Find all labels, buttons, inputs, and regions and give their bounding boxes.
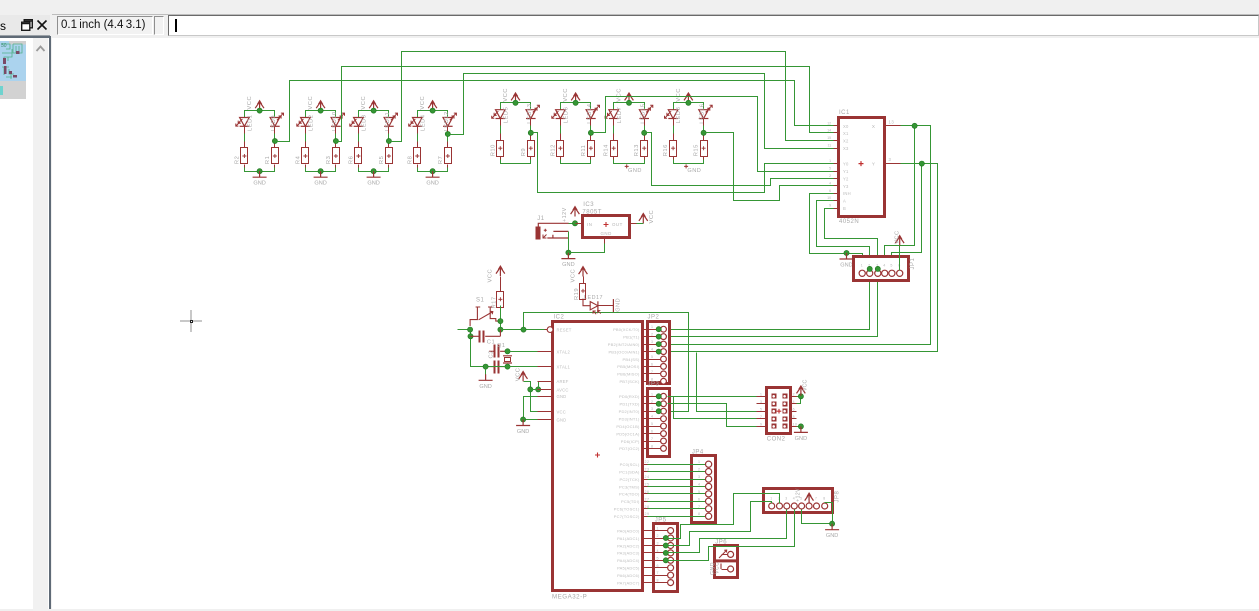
- svg-text:XTAL2: XTAL2: [557, 349, 571, 354]
- power VCC group 5: [515, 94, 517, 103]
- svg-text:GND: GND: [253, 181, 265, 187]
- svg-text:6: 6: [651, 362, 654, 366]
- power VCC at R17: [499, 268, 501, 277]
- pin IC2 PC1(SDA): [643, 471, 648, 473]
- junction JP5 pin: [663, 543, 668, 548]
- junction JP2 pin: [656, 349, 661, 354]
- svg-text:VCC: VCC: [803, 380, 809, 391]
- LED LED2: [301, 118, 311, 127]
- svg-text:R13: R13: [634, 144, 640, 156]
- resistor R17: [497, 292, 504, 308]
- junction AVCC a: [528, 387, 533, 392]
- svg-text:28: 28: [645, 505, 650, 509]
- pin CON2 6: [791, 411, 797, 413]
- power +12V: [574, 208, 576, 217]
- pin JP4 3: [648, 479, 706, 481]
- wire LED14 to R11: [590, 119, 592, 141]
- wire bottom group 8: [673, 157, 675, 161]
- resistor R15: [701, 141, 708, 157]
- pin CON2 10: [791, 426, 797, 428]
- junction gnd group 2: [318, 169, 323, 174]
- pin IC2 PD3(INT1): [643, 418, 648, 420]
- svg-text:LED15: LED15: [640, 103, 646, 123]
- svg-text:4: 4: [651, 415, 654, 419]
- pin IC2 PA4(ADC4): [643, 560, 648, 562]
- svg-text:1: 1: [770, 497, 772, 501]
- pin JP1 5: [889, 270, 895, 276]
- power VCC group 2: [320, 102, 322, 111]
- wire net MUXX (IC1 X to JP1/JP2): [668, 126, 931, 345]
- svg-text:MEGA32-P: MEGA32-P: [552, 593, 587, 600]
- wire bottom group 6: [560, 157, 562, 161]
- resistor R19: [580, 284, 586, 300]
- ground GND at JP1: [840, 253, 854, 259]
- svg-text:VCC: VCC: [570, 269, 576, 283]
- svg-text:6: 6: [657, 564, 660, 568]
- wire LED8 to R16: [673, 119, 675, 141]
- ground GND at JP8: [825, 524, 839, 530]
- wire LED7 to R14: [613, 119, 615, 141]
- small separator box: [154, 16, 164, 35]
- wire J1 gnd: [568, 232, 570, 253]
- pin IC1 X0: [834, 125, 839, 127]
- wire net INH (IC1 to GND/JP1 pin1): [810, 194, 863, 271]
- wire VCC to JP1 pin6: [899, 246, 901, 271]
- wire bottom group 2: [305, 165, 307, 169]
- svg-text:LED5: LED5: [503, 107, 509, 124]
- pin IC2 PC4(TDO): [643, 493, 648, 495]
- pin JP6 1: [728, 551, 734, 557]
- wire GND rows net: [524, 397, 538, 420]
- pin IC2 PB0(XCK/T0): [643, 329, 648, 331]
- pin IC1 Y2: [834, 178, 839, 180]
- pin IC2 GND: [538, 419, 554, 421]
- svg-text:JP2: JP2: [648, 315, 660, 321]
- wire reset net to IC2: [501, 329, 545, 331]
- svg-text:1: 1: [657, 527, 660, 531]
- svg-text:Y2: Y2: [843, 176, 849, 181]
- pin JP4 1: [648, 464, 706, 466]
- svg-text:Y1: Y1: [843, 169, 849, 174]
- svg-text:PA4(ADC4): PA4(ADC4): [617, 558, 640, 563]
- pin IC2 PB5(MOSI): [643, 366, 648, 368]
- pin JP8 1: [769, 503, 775, 509]
- svg-text:GND: GND: [557, 394, 567, 399]
- power VCC group 1: [259, 102, 261, 111]
- svg-text:7: 7: [698, 505, 701, 509]
- wire LED2 to R4: [305, 127, 307, 148]
- pin IC1 INH: [834, 193, 839, 195]
- wire vcc rail group 2: [306, 111, 336, 118]
- svg-text:AREF: AREF: [557, 379, 569, 384]
- pin IC2 PD5(OC1A): [643, 433, 648, 435]
- svg-text:VCC: VCC: [714, 562, 720, 574]
- pin IC2 PC6(TOSC1): [643, 508, 648, 510]
- pin IC2 AVCC: [538, 389, 554, 391]
- pin IC2 PB3(OC0/AIN1): [643, 351, 648, 353]
- svg-text:PA1(ADC1): PA1(ADC1): [617, 536, 640, 541]
- pin JP2 8: [648, 381, 661, 383]
- wire JP3 pin1 to CON2: [668, 396, 757, 398]
- resistor R7: [445, 148, 452, 164]
- wire vcc rail group 4: [418, 111, 448, 118]
- ground GND at LED17 (rotated): [612, 299, 614, 312]
- pin IC2 PA0(ADC0): [643, 530, 648, 532]
- svg-text:7: 7: [651, 370, 654, 374]
- svg-text:8: 8: [793, 415, 795, 419]
- pin JP3 1: [648, 396, 661, 398]
- svg-text:GND: GND: [826, 533, 838, 539]
- pin IC2 PA1(ADC1): [643, 538, 648, 540]
- wire IC3 out to VCC: [637, 223, 644, 225]
- wire LED12 to R7: [447, 127, 449, 148]
- pin JP8 6: [806, 503, 812, 509]
- power +12V at JP8: [808, 495, 810, 504]
- junction JP1 pin3: [875, 266, 880, 271]
- svg-text:3: 3: [698, 475, 701, 479]
- svg-text:12: 12: [827, 121, 831, 125]
- pin JP1 2: [867, 270, 873, 276]
- pin CON2 7: [757, 418, 767, 420]
- svg-text:2: 2: [829, 174, 831, 178]
- svg-text:VCC: VCC: [557, 410, 566, 415]
- svg-text:PA6(ADC6): PA6(ADC6): [617, 573, 640, 578]
- wire LED3 to R6: [358, 127, 360, 148]
- junction X out: [912, 123, 917, 128]
- svg-text:PC1(SDA): PC1(SDA): [619, 469, 640, 474]
- wire JP5 pin2 to JP8 pin2: [666, 494, 780, 539]
- wire CON2 GND: [797, 426, 801, 428]
- resistor R3: [333, 148, 340, 164]
- svg-text:R4: R4: [295, 155, 301, 164]
- svg-text:1: 1: [829, 159, 831, 163]
- svg-text:X: X: [872, 124, 876, 129]
- svg-text:GND: GND: [795, 436, 807, 442]
- pin IC2 VCC: [538, 411, 554, 413]
- svg-text:15: 15: [827, 136, 831, 140]
- pin JP1 3: [875, 270, 881, 276]
- wire vcc rail group 3: [359, 111, 389, 118]
- junction INH gnd: [844, 250, 849, 255]
- wire AVCC pin: [531, 389, 538, 391]
- junction vcc group 7: [626, 100, 631, 105]
- svg-text:GND: GND: [628, 168, 642, 174]
- wire net Y3 (G8 to IC1): [704, 133, 834, 201]
- svg-text:VCC: VCC: [420, 96, 426, 110]
- svg-text:VCC: VCC: [895, 230, 901, 244]
- svg-text:1: 1: [698, 460, 701, 464]
- wire bottom group 3: [358, 165, 360, 169]
- wire vcc rail group 7: [614, 103, 645, 110]
- diode LED17: [583, 299, 590, 306]
- junction G5 out: [528, 130, 533, 135]
- svg-text:X1: X1: [843, 131, 849, 136]
- connector JP1 box: [854, 257, 909, 281]
- svg-text:8: 8: [698, 512, 701, 516]
- voltage regulator IC3 7805T box: [583, 216, 630, 238]
- svg-text:VCC: VCC: [247, 96, 253, 110]
- svg-text:PB5(MOSI): PB5(MOSI): [617, 364, 640, 369]
- svg-text:GND: GND: [615, 298, 621, 312]
- svg-text:+12V: +12V: [796, 488, 802, 502]
- svg-text:5: 5: [698, 490, 701, 494]
- pin JP4 6: [648, 501, 706, 503]
- svg-text:R16: R16: [663, 144, 669, 156]
- pin JP8 3: [784, 503, 790, 509]
- svg-text:Y0: Y0: [843, 162, 849, 167]
- svg-text:5: 5: [651, 422, 654, 426]
- pin JP7 1: [728, 566, 734, 572]
- svg-text:2: 2: [651, 400, 654, 404]
- junction G4 out: [445, 131, 450, 136]
- svg-text:LED2: LED2: [309, 114, 315, 131]
- svg-text:R5: R5: [379, 156, 385, 164]
- svg-text:14: 14: [827, 129, 831, 133]
- wire net Y1 (G6 to IC1): [591, 97, 834, 172]
- LED LED12: [443, 118, 453, 127]
- svg-text:PC0(SCL): PC0(SCL): [620, 462, 640, 467]
- junction vcc group 8: [686, 100, 691, 105]
- power VCC at IC3 output: [642, 215, 644, 224]
- wire LED10 to R3: [335, 127, 337, 148]
- svg-text:VCC: VCC: [516, 368, 522, 382]
- svg-text:7: 7: [651, 437, 654, 441]
- wire JP5 pin3 to JP8 pin1: [666, 502, 772, 546]
- pin CON2 2: [791, 396, 797, 398]
- svg-text:R9: R9: [521, 148, 527, 156]
- ground GND at crystal: [479, 374, 493, 380]
- resistor R12: [557, 141, 564, 157]
- svg-text:6: 6: [698, 497, 701, 501]
- svg-text:PD2(INT0): PD2(INT0): [619, 409, 640, 414]
- LED LED9: [270, 118, 280, 127]
- svg-text:PB0(XCK/T0): PB0(XCK/T0): [613, 327, 640, 332]
- wire JP5 pin4 to JP8 pin3: [666, 510, 787, 553]
- junction reset top: [498, 319, 503, 324]
- pin CON2 3: [757, 403, 767, 405]
- svg-text:4: 4: [657, 549, 660, 553]
- svg-text:IN: IN: [587, 222, 592, 227]
- command input field: [168, 15, 1259, 36]
- svg-text:VCC: VCC: [617, 88, 623, 102]
- crystal Q1: [503, 356, 512, 363]
- svg-text:VCC: VCC: [676, 88, 682, 102]
- pin IC2 PB7(SCK): [643, 381, 648, 383]
- pin JP3 2: [648, 403, 661, 405]
- wire net X1 (G2 to IC1): [336, 67, 834, 142]
- capacitor C1: [479, 331, 481, 343]
- svg-text:29: 29: [645, 512, 650, 516]
- wire J1 to +12V node: [569, 223, 576, 225]
- svg-text:3: 3: [785, 497, 787, 501]
- junction reset row: [498, 327, 503, 332]
- resistor R2: [241, 148, 248, 164]
- svg-text:R6: R6: [348, 156, 354, 164]
- svg-text:5: 5: [890, 264, 893, 268]
- svg-text:GND: GND: [314, 181, 326, 187]
- svg-text:5: 5: [657, 556, 660, 560]
- svg-text:3: 3: [657, 542, 660, 546]
- op-amp IC1 4052N box: [839, 118, 885, 217]
- connector JP2 box: [648, 322, 670, 384]
- ground GND at IC2: [516, 420, 530, 426]
- pin IC2 PA3(ADC3): [643, 552, 648, 554]
- svg-text:LED13: LED13: [527, 103, 533, 123]
- svg-text:JP8: JP8: [835, 490, 841, 502]
- svg-text:JP6: JP6: [715, 540, 727, 546]
- pin IC1 Y1: [834, 171, 839, 173]
- svg-text:PA7(ADC7): PA7(ADC7): [617, 580, 640, 585]
- svg-text:CON2: CON2: [767, 436, 786, 442]
- pin IC1 Y: [886, 163, 901, 165]
- ground GND group 1: [253, 171, 267, 177]
- ground GND group 2: [314, 171, 328, 177]
- pin IC2 PD6(ICP): [643, 441, 648, 443]
- svg-text:R12: R12: [550, 144, 556, 156]
- microcontroller IC2 MEGA32-P box: [553, 322, 643, 591]
- svg-text:JP3: JP3: [648, 381, 660, 387]
- pin IC1 X3: [834, 148, 839, 150]
- svg-text:PA3(ADC3): PA3(ADC3): [617, 551, 640, 556]
- wire net SELA (IC1 A to JP1 pin2 / JP2): [668, 201, 870, 330]
- svg-text:22: 22: [645, 460, 650, 464]
- svg-text:R8: R8: [407, 156, 413, 164]
- svg-text:6: 6: [829, 189, 831, 193]
- pin IC2 PC2(TCK): [643, 479, 648, 481]
- ground GND at J1: [561, 253, 575, 259]
- junction JP5 pin: [663, 550, 668, 555]
- svg-text:1: 1: [760, 393, 762, 397]
- svg-text:1: 1: [861, 264, 864, 268]
- wire VCC to R17: [500, 277, 502, 292]
- pin IC2 PD1(TXD): [643, 403, 648, 405]
- pin IC1 X: [886, 125, 901, 127]
- resistor R11: [588, 141, 595, 157]
- svg-text:PB7(SCK): PB7(SCK): [619, 379, 640, 384]
- junction vcc group 1: [257, 108, 262, 113]
- junction AVCC b: [536, 387, 541, 392]
- svg-text:3: 3: [760, 400, 762, 404]
- svg-text:PC4(TDO): PC4(TDO): [619, 492, 640, 497]
- svg-text:XTAL1: XTAL1: [557, 365, 571, 370]
- junction G2 out: [333, 138, 338, 143]
- pin IC1 B: [834, 208, 839, 210]
- wire net X0 (G1 to IC1): [275, 81, 834, 142]
- svg-text:C2: C2: [489, 350, 495, 358]
- resistor R8: [414, 148, 421, 164]
- svg-text:S1: S1: [476, 298, 485, 304]
- pin JP4 7: [648, 508, 706, 510]
- junction JP3 pin: [656, 394, 661, 399]
- svg-text:GND: GND: [367, 181, 379, 187]
- pin JP3 8: [648, 448, 661, 450]
- junction +12V input: [572, 221, 577, 226]
- svg-text:2: 2: [657, 534, 660, 538]
- svg-text:R19: R19: [574, 288, 580, 300]
- junction G1 out: [272, 138, 277, 143]
- LED LED7: [609, 110, 619, 119]
- junction gnd group 1: [257, 169, 262, 174]
- svg-text:VCC: VCC: [649, 210, 655, 224]
- junction G7 out: [642, 130, 647, 135]
- power VCC group 7: [628, 94, 630, 103]
- svg-text:VCC: VCC: [308, 96, 314, 110]
- junction IC2 gnd: [521, 417, 526, 422]
- svg-text:6: 6: [793, 407, 795, 411]
- junction vcc group 3: [371, 108, 376, 113]
- wire JP5 pin5 to JP8 pin4: [666, 510, 795, 561]
- wire riser to CON2 pin5: [697, 353, 757, 412]
- pin IC2 GND: [538, 396, 554, 398]
- pin JP3 7: [648, 441, 661, 443]
- svg-text:GND: GND: [840, 263, 852, 269]
- svg-text:PB1(T1): PB1(T1): [623, 334, 640, 339]
- LED LED16: [699, 110, 709, 119]
- pin JP2 5: [648, 359, 661, 361]
- junction CON2 vcc: [798, 394, 803, 399]
- svg-text:LED1: LED1: [248, 114, 254, 131]
- connector JP5 box: [654, 524, 678, 592]
- pin JP3 4: [648, 418, 661, 420]
- connector JP3 box: [648, 389, 670, 457]
- pin JP2 2: [648, 336, 661, 338]
- pin CON2 4: [791, 403, 797, 405]
- svg-text:GND: GND: [479, 384, 491, 390]
- LED LED13: [526, 110, 536, 119]
- svg-text:VCC: VCC: [503, 88, 509, 102]
- LED LED14: [586, 110, 596, 119]
- pin IC2 PA2(ADC2): [643, 545, 648, 547]
- resistor R9: [528, 141, 535, 157]
- svg-text:7: 7: [657, 571, 660, 575]
- pin IC2 PB2(INT2/AIN0): [643, 344, 648, 346]
- junction JP2 pin: [656, 334, 661, 339]
- svg-text:2: 2: [793, 393, 795, 397]
- connector J1 power jack: [536, 227, 541, 240]
- svg-text:VCC: VCC: [563, 88, 569, 102]
- ground GND group 8: [684, 164, 688, 168]
- pin CON2 9: [757, 426, 767, 428]
- connector CON2 box: [767, 388, 791, 434]
- svg-text:JP4: JP4: [692, 450, 704, 456]
- resistor R10: [497, 141, 504, 157]
- svg-text:AVCC: AVCC: [557, 387, 569, 392]
- svg-text:R11: R11: [581, 145, 587, 157]
- pin IC2 AREF: [538, 381, 554, 383]
- power VCC at CON2: [800, 387, 802, 396]
- wire to gnd: [485, 367, 487, 375]
- pin JP2 4: [648, 351, 661, 353]
- wire LED4 to R8: [417, 127, 419, 148]
- pin JP5 1: [648, 530, 668, 532]
- capacitor C3: [494, 361, 496, 374]
- pin IC2 PD2(INT0): [643, 411, 648, 413]
- svg-text:PA5(ADC5): PA5(ADC5): [617, 566, 640, 571]
- pin IC2 PB1(T1): [643, 336, 648, 338]
- wire VCC to R19: [583, 277, 585, 284]
- svg-text:LED8: LED8: [676, 107, 682, 124]
- junction xtal gnd: [483, 364, 488, 369]
- junction JP5 pin: [663, 535, 668, 540]
- pin IC1 A: [834, 200, 839, 202]
- svg-text:B: B: [843, 206, 846, 211]
- LED LED5: [496, 110, 506, 119]
- junction gnd group 4: [430, 169, 435, 174]
- pin JP8 4: [791, 503, 797, 509]
- svg-text:GND: GND: [517, 429, 529, 435]
- wire net X2 (G3 to IC1): [389, 52, 834, 142]
- pin IC1 X1: [834, 132, 839, 134]
